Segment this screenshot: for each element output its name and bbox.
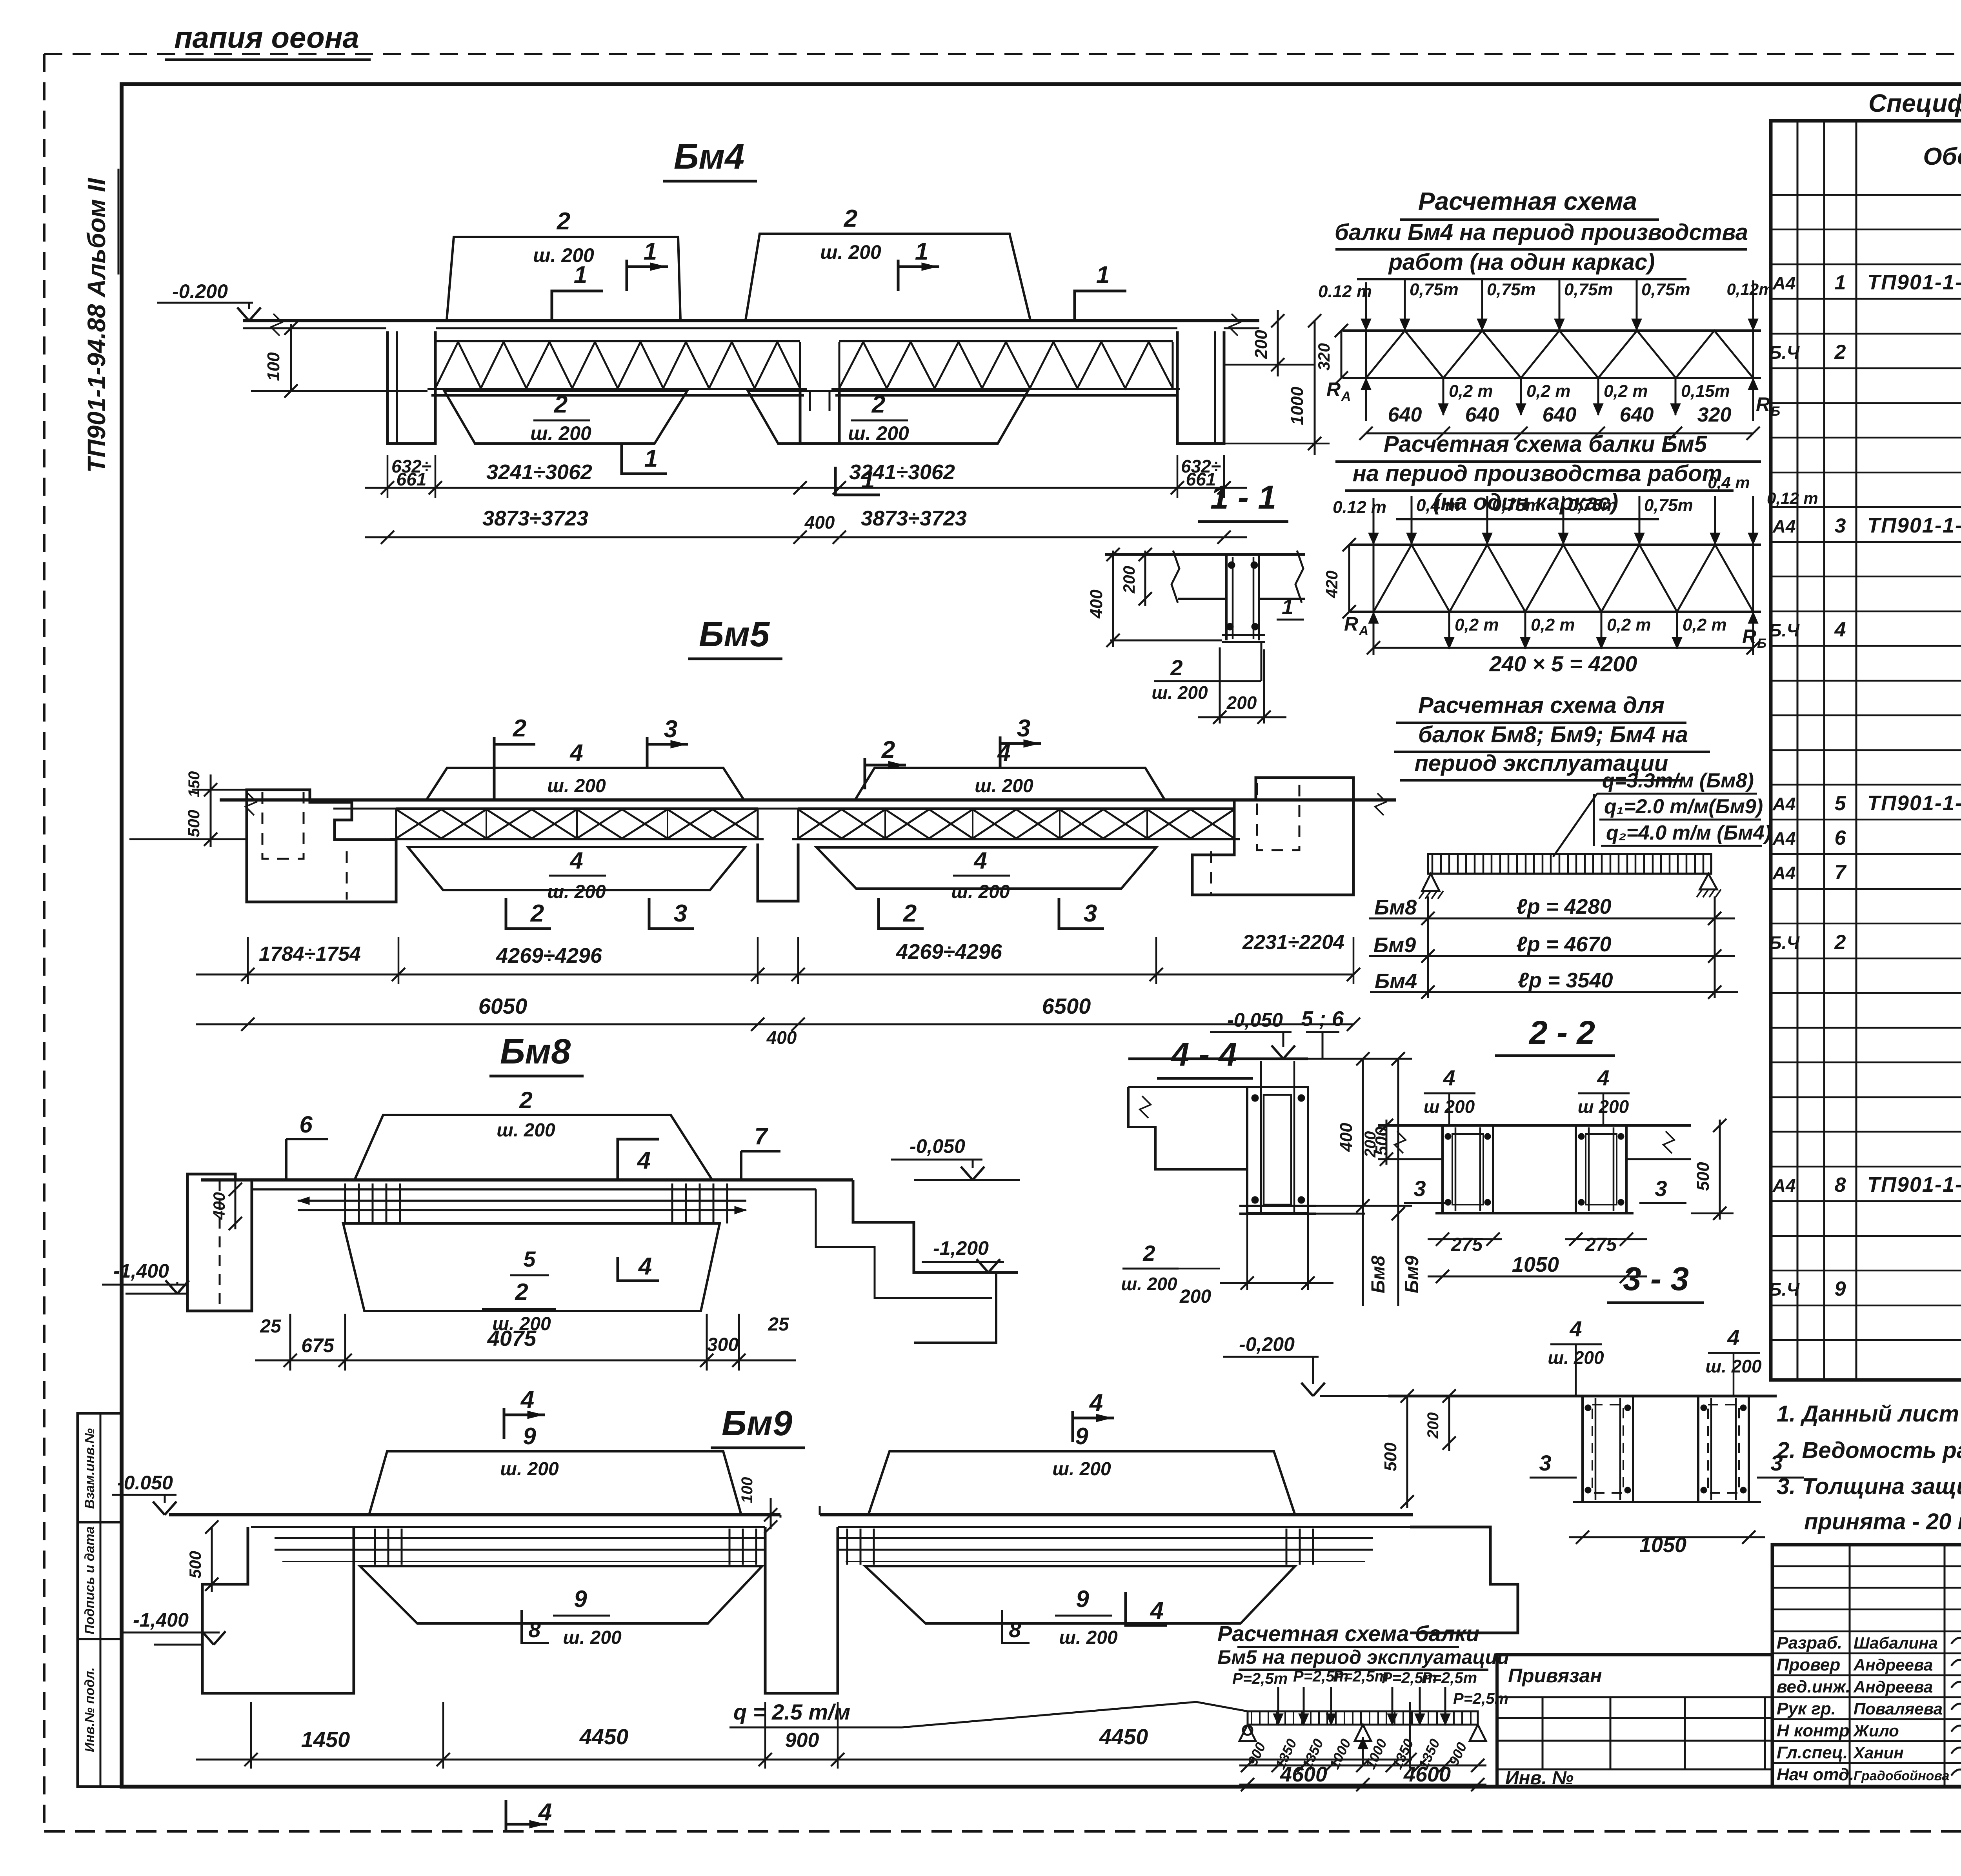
svg-text:0,15т: 0,15т [1681, 382, 1730, 401]
svg-text:3: 3 [1084, 900, 1097, 927]
beam Bm4 title [663, 137, 757, 181]
svg-text:0,2 т: 0,2 т [1604, 382, 1648, 401]
svg-text:балки Бм4 на период производст: балки Бм4 на период производства [1335, 220, 1748, 245]
svg-text:3241÷3062: 3241÷3062 [849, 460, 955, 484]
svg-text:2: 2 [1170, 655, 1182, 680]
svg-text:275: 275 [1585, 1234, 1617, 1255]
svg-text:3: 3 [1017, 715, 1030, 742]
lp table [1369, 895, 1738, 999]
svg-text:3873÷3723: 3873÷3723 [861, 507, 967, 530]
svg-text:P=2,5т: P=2,5т [1453, 1690, 1508, 1707]
svg-text:4600: 4600 [1280, 1763, 1327, 1786]
svg-text:0,75т: 0,75т [1641, 280, 1690, 299]
svg-text:0,4 т: 0,4 т [1708, 473, 1750, 492]
svg-text:0.12 т: 0.12 т [1333, 498, 1386, 517]
svg-text:6500: 6500 [1042, 994, 1091, 1018]
svg-text:ш. 200: ш. 200 [1121, 1274, 1177, 1294]
svg-text:100: 100 [264, 352, 283, 381]
svg-text:Бм4: Бм4 [674, 137, 744, 176]
svg-text:Расчетная схема для: Расчетная схема для [1418, 693, 1664, 718]
svg-text:Нач отд.: Нач отд. [1777, 1765, 1854, 1784]
svg-text:4: 4 [569, 740, 583, 766]
section 4-4 [1121, 1007, 1423, 1307]
svg-text:200: 200 [1252, 330, 1271, 359]
svg-text:400: 400 [1337, 1123, 1356, 1152]
svg-text:ш. 200: ш. 200 [1151, 682, 1208, 703]
svg-text:0,75т: 0,75т [1410, 280, 1459, 299]
svg-text:3: 3 [674, 900, 687, 927]
svg-text:3: 3 [1413, 1176, 1426, 1201]
svg-text:ш. 200: ш. 200 [848, 422, 909, 444]
svg-text:Б.Ч: Б.Ч [1769, 1279, 1800, 1300]
svg-text:ш. 200: ш. 200 [951, 882, 1010, 902]
svg-text:400: 400 [766, 1027, 797, 1048]
svg-text:4: 4 [1834, 618, 1846, 641]
svg-text:400: 400 [210, 1192, 228, 1220]
svg-text:Расчетная схема: Расчетная схема [1418, 187, 1637, 215]
svg-text:q=3.3т/м (Бм8): q=3.3т/м (Бм8) [1602, 769, 1754, 792]
svg-text:на период производства работ: на период производства работ [1353, 461, 1723, 486]
svg-text:-1,400: -1,400 [113, 1260, 169, 1282]
svg-text:6: 6 [1835, 827, 1846, 849]
svg-text:400: 400 [1087, 589, 1106, 619]
svg-text:4600: 4600 [1403, 1763, 1451, 1786]
svg-text:Ханин: Ханин [1853, 1743, 1904, 1762]
svg-text:Бм5: Бм5 [699, 615, 770, 654]
svg-text:0,2 т: 0,2 т [1607, 615, 1651, 634]
svg-text:Рук гр.: Рук гр. [1777, 1699, 1836, 1718]
svg-text:3241÷3062: 3241÷3062 [486, 460, 592, 484]
svg-text:ш. 200: ш. 200 [563, 1627, 622, 1648]
notes [1776, 1401, 1961, 1534]
svg-text:q₂=4.0 т/м (Бм4): q₂=4.0 т/м (Бм4) [1606, 822, 1771, 844]
calc scheme Bm5 truss [1322, 473, 1818, 676]
svg-text:2: 2 [903, 900, 917, 927]
svg-text:-0.200: -0.200 [172, 280, 228, 302]
svg-text:4: 4 [538, 1799, 552, 1826]
svg-text:9: 9 [574, 1586, 587, 1612]
svg-text:275: 275 [1451, 1234, 1483, 1255]
svg-text:8: 8 [528, 1617, 541, 1642]
svg-text:0,2 т: 0,2 т [1455, 615, 1499, 634]
svg-text:А4: А4 [1772, 828, 1796, 849]
svg-text:4: 4 [569, 847, 583, 874]
svg-text:Разраб.: Разраб. [1777, 1633, 1842, 1652]
svg-text:2: 2 [530, 900, 544, 927]
svg-text:25: 25 [260, 1316, 282, 1337]
svg-text:675: 675 [301, 1334, 335, 1356]
svg-text:7: 7 [1835, 861, 1847, 884]
svg-text:Бм9: Бм9 [1402, 1256, 1423, 1293]
svg-text:Привязан: Привязан [1508, 1665, 1602, 1687]
svg-text:500: 500 [1381, 1442, 1400, 1471]
svg-text:Расчетная схема балки Бм5: Расчетная схема балки Бм5 [1384, 431, 1707, 457]
svg-text:1. Данный лист рассматривать: 1. Данный лист рассматривать совместно с… [1777, 1401, 1961, 1427]
svg-text:3: 3 [1539, 1451, 1551, 1475]
svg-text:А4: А4 [1772, 516, 1796, 536]
svg-text:100: 100 [739, 1477, 756, 1503]
svg-text:5: 5 [523, 1247, 536, 1271]
svg-text:0,12т: 0,12т [1726, 280, 1773, 298]
svg-text:6: 6 [299, 1111, 313, 1138]
svg-text:Б.Ч: Б.Ч [1769, 342, 1800, 363]
svg-text:4: 4 [1727, 1325, 1739, 1350]
svg-text:3873÷3723: 3873÷3723 [482, 507, 588, 530]
svg-text:0,4 т: 0,4 т [1416, 496, 1461, 515]
svg-text:1 - 1: 1 - 1 [1210, 479, 1276, 516]
svg-text:Спецификация к балкам Бм4; Бм: Спецификация к балкам Бм4; Бм5; Бм8; Бм9 [1868, 89, 1961, 117]
svg-text:ш. 200: ш. 200 [1052, 1459, 1111, 1480]
svg-text:2: 2 [554, 391, 568, 418]
svg-text:Б.Ч: Б.Ч [1769, 933, 1800, 953]
beam Bm5 title [688, 615, 782, 659]
svg-text:Обозначение.: Обозначение. [1923, 143, 1961, 170]
svg-text:400: 400 [804, 512, 835, 533]
svg-text:2: 2 [1142, 1241, 1155, 1265]
svg-text:1: 1 [1096, 262, 1110, 289]
svg-text:Провер: Провер [1777, 1655, 1840, 1674]
svg-text:4: 4 [1569, 1316, 1582, 1341]
title block [1772, 1545, 1961, 1787]
svg-text:1050: 1050 [1639, 1533, 1686, 1557]
svg-text:0.12 т: 0.12 т [1318, 282, 1372, 301]
svg-text:Градобойнова: Градобойнова [1854, 1769, 1949, 1783]
svg-text:0,75т: 0,75т [1492, 496, 1541, 515]
svg-text:А4: А4 [1772, 863, 1796, 883]
svg-text:Поваляева: Поваляева [1854, 1700, 1943, 1718]
svg-text:2: 2 [515, 1279, 528, 1305]
svg-text:А4: А4 [1772, 1175, 1796, 1196]
svg-text:200: 200 [1362, 1131, 1379, 1158]
svg-text:ш. 200: ш. 200 [500, 1459, 559, 1480]
svg-text:А4: А4 [1772, 794, 1796, 814]
svg-text:1450: 1450 [301, 1727, 350, 1752]
svg-text:1: 1 [1282, 595, 1293, 619]
svg-text:ТП901-1-9 88 -КЖИ1-С9: ТП901-1-9 88 -КЖИ1-С9 [1867, 271, 1961, 294]
svg-text:-0,200: -0,200 [1239, 1333, 1295, 1355]
svg-text:4450: 4450 [579, 1724, 629, 1749]
svg-text:6050: 6050 [478, 994, 528, 1018]
svg-text:Н контр: Н контр [1777, 1721, 1850, 1740]
svg-text:4450: 4450 [1099, 1724, 1148, 1749]
svg-text:Подпись и дата: Подпись и дата [82, 1526, 97, 1634]
calc scheme exploitation heading [1394, 693, 1710, 780]
svg-text:5: 5 [1835, 792, 1846, 815]
simply supported beam diagram [1419, 854, 1721, 899]
svg-text:0,12 т: 0,12 т [1767, 489, 1818, 507]
distributed load labels [1553, 769, 1771, 857]
svg-text:Бм8: Бм8 [500, 1032, 571, 1071]
svg-text:4075: 4075 [487, 1326, 537, 1351]
svg-text:-0,050: -0,050 [1227, 1009, 1283, 1031]
svg-text:8: 8 [1835, 1174, 1846, 1196]
svg-text:-0.050: -0.050 [117, 1472, 173, 1494]
svg-text:А4: А4 [1772, 273, 1796, 293]
svg-text:R: R [1742, 625, 1756, 647]
svg-text:300: 300 [707, 1334, 739, 1355]
svg-text:9: 9 [523, 1423, 536, 1449]
svg-text:R: R [1344, 613, 1358, 635]
svg-text:Бм4: Бм4 [1375, 969, 1417, 993]
svg-text:1: 1 [1835, 271, 1846, 294]
svg-text:2: 2 [1834, 341, 1846, 364]
svg-text:-1,400: -1,400 [133, 1609, 189, 1631]
svg-text:-0,050: -0,050 [910, 1135, 965, 1157]
svg-text:3: 3 [1835, 514, 1846, 537]
svg-text:4: 4 [1597, 1065, 1609, 1090]
svg-text:ℓр = 4280: ℓр = 4280 [1516, 895, 1612, 918]
svg-text:Бм9: Бм9 [722, 1404, 792, 1443]
left margin stamp column [78, 1413, 122, 1787]
svg-text:ш. 200: ш. 200 [820, 241, 881, 263]
svg-text:Бм9: Бм9 [1373, 933, 1416, 957]
svg-text:работ (на один каркас): работ (на один каркас) [1388, 249, 1655, 275]
svg-text:Бм8: Бм8 [1374, 896, 1417, 919]
svg-text:320: 320 [1315, 343, 1333, 371]
svg-text:ш. 200: ш. 200 [547, 776, 606, 796]
svg-text:ℓр = 4670: ℓр = 4670 [1516, 933, 1612, 956]
svg-text:500: 500 [184, 810, 203, 837]
beam Bm5 elevation [129, 715, 1396, 1048]
svg-text:0,2 т: 0,2 т [1683, 615, 1727, 634]
svg-text:P=2,5т: P=2,5т [1422, 1669, 1477, 1687]
beam Bm9 elevation [112, 1386, 1518, 1831]
svg-text:-1,200: -1,200 [933, 1237, 989, 1259]
svg-text:Андреева: Андреева [1853, 1656, 1933, 1674]
svg-text:Шабалина: Шабалина [1854, 1634, 1938, 1652]
svg-text:ш. 200: ш. 200 [975, 776, 1033, 796]
svg-text:ТП901-1-9 ..88-КЖИ1-С10: ТП901-1-9 ..88-КЖИ1-С10 [1867, 514, 1961, 537]
svg-text:4: 4 [1089, 1389, 1103, 1416]
svg-text:1: 1 [644, 238, 657, 265]
svg-text:ℓр = 3540: ℓр = 3540 [1518, 969, 1613, 992]
svg-text:4: 4 [973, 847, 987, 874]
calc scheme Bm5 exploitation [729, 1621, 1509, 1791]
svg-text:9: 9 [1076, 1586, 1089, 1612]
svg-text:Инв.№ подл.: Инв.№ подл. [82, 1667, 97, 1752]
svg-text:1784÷1754: 1784÷1754 [259, 943, 361, 965]
section 1-1 [1087, 479, 1305, 724]
svg-text:ТП901-1- 9 .88 -КЖИ1-С12: ТП901-1- 9 .88 -КЖИ1-С12 [1867, 1173, 1961, 1196]
svg-text:3: 3 [1655, 1176, 1667, 1201]
svg-text:200: 200 [1226, 693, 1257, 713]
beam Bm8 elevation [102, 1087, 1020, 1371]
privyazan box [1497, 1655, 1772, 1789]
svg-text:0,75т: 0,75т [1564, 280, 1613, 299]
svg-text:R: R [1756, 393, 1770, 415]
svg-text:1050: 1050 [1512, 1253, 1559, 1276]
svg-text:3 - 3: 3 - 3 [1623, 1260, 1689, 1297]
svg-text:Б.Ч: Б.Ч [1769, 620, 1800, 640]
left margin document designation [82, 169, 118, 473]
calc scheme Bm5 heading [1335, 431, 1761, 519]
svg-text:2: 2 [1834, 931, 1846, 954]
svg-text:2: 2 [557, 208, 570, 235]
svg-text:2: 2 [871, 391, 885, 418]
svg-text:0,2 т: 0,2 т [1531, 615, 1575, 634]
svg-text:1: 1 [574, 262, 587, 289]
svg-text:4269÷4296: 4269÷4296 [896, 940, 1002, 963]
svg-text:500: 500 [1694, 1162, 1713, 1191]
svg-text:P=2,5т: P=2,5т [1232, 1670, 1288, 1687]
beam Bm4 elevation [157, 205, 1330, 544]
svg-text:ш. 200: ш. 200 [1059, 1627, 1118, 1648]
svg-text:принята - 20 мм, 25 мм.: принята - 20 мм, 25 мм. [1804, 1509, 1961, 1534]
section 2-2 [1362, 1014, 1734, 1283]
svg-text:балок Бм8; Бм9; Бм4 на: балок Бм8; Бм9; Бм4 на [1418, 722, 1688, 747]
svg-text:4269÷4296: 4269÷4296 [496, 944, 602, 967]
svg-text:200: 200 [1120, 566, 1138, 594]
svg-text:Гл.спец.: Гл.спец. [1777, 1743, 1848, 1762]
svg-text:150: 150 [186, 771, 203, 798]
svg-text:640: 640 [1465, 404, 1499, 426]
calc scheme Bm4 heading [1335, 187, 1748, 279]
calc scheme Bm4 truss [1315, 280, 1780, 440]
svg-text:3: 3 [1770, 1451, 1783, 1475]
svg-text:Взам.инв.№: Взам.инв.№ [82, 1428, 97, 1509]
svg-text:3: 3 [664, 716, 677, 743]
svg-text:0,75т: 0,75т [1644, 496, 1693, 515]
svg-text:240 × 5 = 4200: 240 × 5 = 4200 [1489, 651, 1637, 676]
svg-text:q = 2.5 т/м: q = 2.5 т/м [733, 1700, 850, 1724]
svg-text:А: А [1341, 389, 1351, 404]
svg-text:ш. 200: ш. 200 [547, 882, 606, 902]
svg-text:900: 900 [785, 1729, 819, 1752]
svg-text:200: 200 [1179, 1286, 1211, 1307]
svg-text:Бм5 на период эксплуатации: Бм5 на период эксплуатации [1217, 1646, 1509, 1668]
handwritten folder note top-left [165, 21, 371, 60]
svg-text:Б: Б [1771, 404, 1780, 419]
svg-text:8: 8 [1009, 1617, 1021, 1642]
specification table grid [1771, 121, 1961, 1380]
svg-text:Андреева: Андреева [1853, 1678, 1933, 1696]
svg-text:25: 25 [768, 1314, 789, 1335]
svg-text:1000: 1000 [1288, 387, 1307, 425]
svg-text:4: 4 [520, 1386, 534, 1413]
svg-text:3. Толщина защитного слоя д: 3. Толщина защитного слоя для рабочей ар… [1777, 1474, 1961, 1499]
svg-text:1: 1 [915, 238, 928, 265]
svg-text:5 ; 6: 5 ; 6 [1301, 1007, 1344, 1031]
svg-text:661: 661 [397, 469, 427, 489]
svg-text:9: 9 [1075, 1423, 1088, 1449]
svg-text:640: 640 [1620, 404, 1654, 426]
svg-text:500: 500 [186, 1551, 204, 1578]
beam Bm8 title [489, 1032, 584, 1076]
svg-text:0,2 т: 0,2 т [1526, 382, 1571, 401]
svg-text:2 - 2: 2 - 2 [1528, 1014, 1595, 1051]
svg-text:640: 640 [1543, 404, 1577, 426]
svg-text:0,75т: 0,75т [1568, 496, 1617, 515]
svg-text:ш. 200: ш. 200 [530, 422, 591, 444]
svg-text:2. Ведомость расхода стали: 2. Ведомость расхода стали на Бм4, Бм5, … [1776, 1438, 1961, 1463]
svg-text:А: А [1359, 624, 1369, 638]
svg-text:папия оеона: папия оеона [174, 21, 359, 55]
table header [1923, 138, 1961, 181]
svg-text:Жило: Жило [1853, 1721, 1899, 1740]
svg-text:9: 9 [1835, 1278, 1846, 1300]
svg-text:Бм8: Бм8 [1368, 1256, 1389, 1293]
svg-text:2231÷2204: 2231÷2204 [1242, 931, 1344, 954]
svg-text:200: 200 [1424, 1412, 1442, 1439]
svg-text:2: 2 [513, 715, 526, 742]
svg-text:4: 4 [1150, 1597, 1164, 1624]
section 3-3 [1223, 1260, 1804, 1557]
svg-text:4: 4 [638, 1253, 652, 1280]
svg-text:4: 4 [1443, 1065, 1455, 1090]
svg-text:1: 1 [644, 445, 658, 472]
svg-text:P=2,5т: P=2,5т [1333, 1668, 1388, 1685]
svg-text:2: 2 [844, 205, 857, 232]
svg-text:0,2 т: 0,2 т [1449, 382, 1493, 401]
svg-text:4: 4 [637, 1147, 651, 1174]
svg-text:0,75т: 0,75т [1487, 280, 1536, 299]
svg-text:Расчетная схема балки: Расчетная схема балки [1217, 1621, 1479, 1646]
svg-text:q₁=2.0 т/м(Бм9): q₁=2.0 т/м(Бм9) [1604, 795, 1763, 818]
svg-text:ш. 200: ш. 200 [497, 1120, 555, 1141]
svg-text:вед.инж.: вед.инж. [1777, 1677, 1850, 1696]
svg-text:Инв. №: Инв. № [1505, 1768, 1574, 1789]
svg-text:640: 640 [1388, 404, 1422, 426]
svg-text:420: 420 [1322, 571, 1341, 598]
svg-text:4 - 4: 4 - 4 [1170, 1036, 1237, 1073]
svg-text:2: 2 [519, 1087, 532, 1113]
svg-text:7: 7 [754, 1123, 768, 1149]
svg-text:2: 2 [881, 736, 895, 763]
svg-text:320: 320 [1697, 404, 1732, 426]
svg-text:ТП901-1- 9 88 -КЖИ1-С11: ТП901-1- 9 88 -КЖИ1-С11 [1867, 791, 1961, 815]
svg-text:ТП901-1-94.88 Альбом II: ТП901-1-94.88 Альбом II [82, 178, 111, 473]
beam Bm9 title [711, 1404, 805, 1448]
